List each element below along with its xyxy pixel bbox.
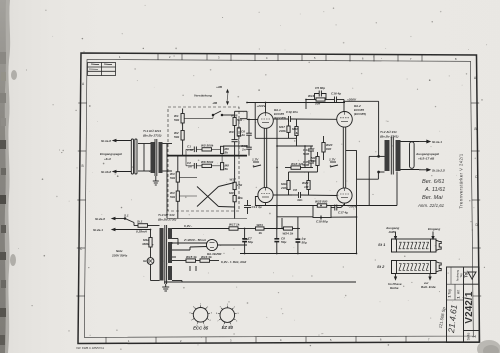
svg-text:St.1a.8: St.1a.8 (101, 139, 111, 143)
svg-text:Z=200V~ 50mA: Z=200V~ 50mA (183, 238, 207, 242)
svg-text:St.1a.1: St.1a.1 (432, 140, 442, 144)
svg-text:1,7V: 1,7V (329, 158, 336, 162)
svg-text:Si.1: Si.1 (137, 220, 143, 224)
svg-text:50k: 50k (174, 135, 179, 139)
svg-text:C16 4p: C16 4p (331, 92, 341, 96)
svg-text:(Bv.Bv 2733): (Bv.Bv 2733) (143, 134, 161, 138)
svg-text:W15 3k: W15 3k (186, 255, 197, 259)
svg-text:Tr.1 EÜ 3211: Tr.1 EÜ 3211 (143, 129, 161, 133)
svg-text:W24 2k: W24 2k (283, 232, 294, 236)
svg-text:0,25mA: 0,25mA (136, 230, 148, 234)
svg-text:50k: 50k (170, 176, 175, 180)
svg-text:2n: 2n (241, 148, 246, 152)
svg-text:7: 7 (330, 164, 332, 168)
svg-text:Tag: Tag (459, 273, 463, 278)
svg-text:B: B (82, 164, 84, 168)
svg-text:30n: 30n (297, 198, 302, 202)
svg-text:6,3V~: 6,3V~ (184, 224, 192, 228)
svg-text:50k: 50k (170, 195, 175, 199)
svg-text:Tr.4 NT 333: Tr.4 NT 333 (158, 213, 175, 217)
svg-text:220V 50Hz: 220V 50Hz (111, 254, 128, 258)
svg-text:M23: M23 (229, 191, 235, 195)
svg-text:50k: 50k (174, 118, 179, 122)
svg-text:–200V: –200V (348, 205, 358, 209)
svg-text:C10 30n: C10 30n (286, 110, 298, 114)
svg-text:(ECC85): (ECC85) (354, 112, 366, 116)
svg-text:30k: 30k (238, 196, 243, 200)
svg-text:50k: 50k (315, 102, 320, 106)
svg-text:50k: 50k (237, 118, 242, 122)
svg-text:Eingangspegel: Eingangspegel (100, 152, 122, 156)
svg-text:C13 4μ: C13 4μ (252, 205, 262, 209)
svg-text:(Bv.Bv 2741): (Bv.Bv 2741) (380, 135, 398, 139)
svg-text:-6dB: -6dB (388, 230, 396, 234)
svg-text:5k: 5k (225, 151, 229, 155)
svg-text:W17: W17 (229, 223, 236, 227)
svg-text:1M: 1M (304, 185, 309, 189)
svg-text:Art: Art (457, 290, 461, 294)
svg-text:Eingang: Eingang (428, 227, 440, 231)
svg-text:+6,5÷17 dB: +6,5÷17 dB (418, 157, 435, 161)
svg-text:6,3V~ f. Rö1, Rö2: 6,3V~ f. Rö1, Rö2 (221, 260, 246, 264)
svg-text:Tol.: Tol. (463, 270, 468, 277)
svg-text:B: B (475, 127, 477, 131)
svg-text:W16: W16 (308, 94, 315, 98)
svg-text:C8: C8 (293, 188, 297, 192)
svg-text:W17: W17 (230, 178, 237, 182)
svg-text:W23: W23 (257, 223, 264, 227)
svg-text:Ber. Mai: Ber. Mai (422, 195, 443, 201)
svg-text:200k: 200k (280, 186, 288, 190)
svg-text:200k: 200k (278, 129, 286, 133)
svg-text:W25 800: W25 800 (315, 200, 328, 204)
svg-text:1,5n: 1,5n (187, 148, 193, 152)
svg-text:50μ: 50μ (281, 240, 286, 244)
svg-text:+6÷0: +6÷0 (104, 157, 111, 161)
svg-text:3k: 3k (259, 231, 263, 235)
svg-text:7: 7 (253, 164, 255, 168)
svg-text:C5 80p: C5 80p (315, 86, 325, 90)
svg-text:1,7V: 1,7V (252, 158, 259, 162)
svg-text:-dB: -dB (212, 101, 218, 105)
svg-text:(ECC85): (ECC85) (274, 116, 286, 120)
svg-text:Verstärkung: Verstärkung (194, 94, 212, 98)
svg-text:W6 500k: W6 500k (201, 160, 214, 164)
svg-text:Tr.2 AÜ 331: Tr.2 AÜ 331 (380, 130, 397, 134)
svg-text:C17 4μ: C17 4μ (338, 211, 348, 215)
svg-text:St.1b.2,5: St.1b.2,5 (432, 168, 445, 172)
svg-text:+200V: +200V (257, 104, 267, 108)
svg-text:St 1: St 1 (378, 242, 386, 247)
svg-text:EZ80: EZ80 (214, 252, 222, 256)
svg-text:Trennverstärker V 242/1: Trennverstärker V 242/1 (458, 153, 463, 209)
svg-text:50μ: 50μ (302, 241, 307, 245)
svg-text:5n: 5n (188, 165, 192, 169)
svg-text:1k: 1k (236, 223, 240, 227)
svg-text:Netz: Netz (116, 249, 123, 253)
svg-text:W9: W9 (229, 130, 234, 134)
svg-text:W18 42k: W18 42k (291, 162, 304, 166)
svg-text:C18 80p: C18 80p (316, 220, 328, 224)
svg-text:W16 3k: W16 3k (201, 255, 212, 259)
svg-text:Ber. 6/61: Ber. 6/61 (422, 179, 445, 185)
svg-text:800: 800 (326, 147, 331, 151)
svg-text:Ausgangspegel: Ausgangspegel (415, 152, 439, 156)
svg-text:Batt. Erde: Batt. Erde (421, 285, 436, 289)
svg-text:50M: 50M (303, 152, 309, 156)
svg-text:St 2: St 2 (377, 264, 385, 269)
svg-text:Gl.1: Gl.1 (143, 259, 149, 263)
svg-text:A. 11/61: A. 11/61 (424, 187, 445, 193)
svg-text:S.1: S.1 (124, 214, 129, 218)
svg-text:Anm. 22/1,61: Anm. 22/1,61 (417, 203, 445, 208)
svg-text:Seite: Seite (467, 333, 471, 341)
svg-text:XW. KWB C.185/57/11: XW. KWB C.185/57/11 (76, 346, 105, 350)
svg-text:Reihe: Reihe (390, 286, 399, 290)
svg-text:C12: C12 (243, 237, 249, 241)
svg-text:25k: 25k (236, 183, 242, 187)
svg-text:(Bv.Bv.2730): (Bv.Bv.2730) (158, 218, 176, 222)
svg-text:W5 500k: W5 500k (201, 144, 214, 148)
svg-text:5k: 5k (225, 167, 229, 171)
svg-text:C4: C4 (238, 134, 242, 138)
svg-text:St.2a.8: St.2a.8 (95, 217, 105, 221)
svg-text:Tag: Tag (448, 289, 452, 295)
svg-text:800: 800 (311, 159, 316, 163)
svg-text:+200V: +200V (347, 98, 357, 102)
svg-text:ECC 85: ECC 85 (193, 326, 209, 331)
svg-text:St.1b.8: St.1b.8 (101, 170, 111, 174)
svg-text:380k: 380k (142, 242, 149, 246)
svg-text:1M: 1M (294, 131, 299, 135)
svg-text:EZ 80: EZ 80 (222, 325, 234, 330)
svg-text:50M: 50M (303, 163, 309, 167)
svg-text:1: 1 (472, 335, 477, 338)
svg-text:W26: W26 (231, 114, 238, 118)
svg-text:St.2a.1: St.2a.1 (93, 228, 103, 232)
svg-text:+dB: +dB (216, 85, 223, 89)
